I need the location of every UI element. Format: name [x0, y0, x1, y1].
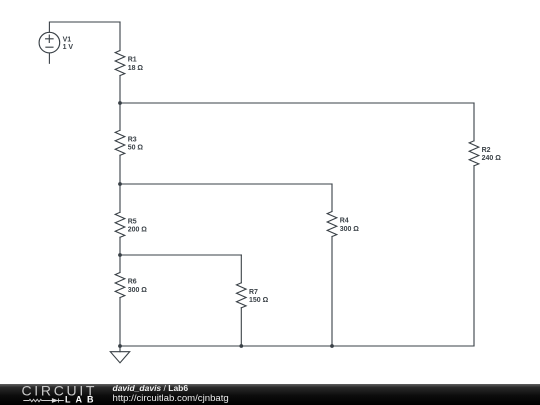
svg-text:150 Ω: 150 Ω: [249, 297, 269, 304]
svg-text:R5: R5: [128, 218, 137, 225]
wire R1 bottom to R3 top through node N1: [119, 76, 121, 131]
footer bar: [0, 384, 540, 405]
node N3: [118, 253, 122, 257]
svg-text:david_davis / Lab6: david_davis / Lab6: [113, 383, 189, 393]
svg-text:V1: V1: [63, 37, 72, 44]
wire R4 bottom lead to bottom rail: [331, 237, 333, 347]
node N2: [118, 182, 122, 186]
node R7 bottom junction: [239, 344, 243, 348]
wire node N3 to R7 branch: [120, 254, 241, 256]
svg-text:R3: R3: [128, 136, 137, 143]
svg-text:200 Ω: 200 Ω: [128, 227, 148, 234]
node N1: [118, 101, 122, 105]
svg-text:50 Ω: 50 Ω: [128, 145, 144, 152]
resistor R5: [115, 212, 125, 237]
svg-text:R6: R6: [128, 279, 137, 286]
wire V1 bottom stub: [48, 53, 50, 63]
wire R4 top lead: [331, 184, 333, 212]
resistor R2: [469, 141, 479, 166]
wire R2 bottom lead to bottom rail: [473, 166, 475, 346]
wire R5 bottom to R6 top through node N3: [119, 237, 121, 272]
wire V1 top to R1 top corner: [49, 22, 120, 32]
svg-text:300 Ω: 300 Ω: [340, 226, 360, 233]
wire node N1 to R2 branch: [120, 102, 474, 104]
resistor R4: [327, 212, 337, 237]
wire node N2 to R4 branch: [120, 183, 332, 185]
ground: [110, 346, 129, 363]
svg-text:R2: R2: [482, 147, 491, 154]
wire R7 top lead: [240, 255, 242, 283]
CircuitLab logo resistor icon: [23, 399, 51, 401]
CircuitLab logo diode icon: [51, 399, 64, 403]
wire R3 bottom to R5 top through node N2: [119, 155, 121, 212]
wire bottom rail: [120, 345, 474, 347]
svg-text:LAB: LAB: [65, 395, 99, 405]
svg-text:R1: R1: [128, 57, 137, 64]
svg-text:1 V: 1 V: [63, 44, 74, 51]
resistor R3: [115, 130, 125, 155]
wire R6 bottom to bottom rail: [119, 298, 121, 347]
svg-text:http://circuitlab.com/cjnbatg: http://circuitlab.com/cjnbatg: [113, 393, 229, 404]
svg-text:R7: R7: [249, 289, 258, 296]
svg-text:R4: R4: [340, 218, 349, 225]
svg-text:300 Ω: 300 Ω: [128, 287, 148, 294]
svg-text:18 Ω: 18 Ω: [128, 65, 144, 72]
node ground junction: [118, 344, 122, 348]
voltage source V1: [39, 32, 60, 53]
wire R7 bottom lead to bottom rail: [240, 308, 242, 346]
node R4 bottom junction: [330, 344, 334, 348]
wire R2 top lead: [473, 103, 475, 141]
resistor R7: [237, 283, 247, 308]
wire top lead of R1: [119, 22, 121, 51]
resistor R1: [115, 51, 125, 76]
svg-text:240 Ω: 240 Ω: [482, 155, 502, 162]
resistor R6: [115, 273, 125, 298]
